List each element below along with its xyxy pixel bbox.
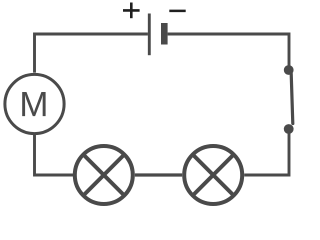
wire left (motor to bottom corner) <box>35 135 74 175</box>
switch contact node (top) <box>284 65 294 75</box>
switch contact node (bottom) <box>284 124 294 134</box>
switch (open) <box>284 65 294 134</box>
label - <box>169 10 185 13</box>
battery positive plate <box>148 14 151 56</box>
wire bottom-right (lamp 2 to switch) <box>244 132 289 175</box>
battery negative plate <box>161 23 168 45</box>
motor M <box>5 74 64 133</box>
switch lever (open) <box>291 74 293 124</box>
lamp 1 <box>75 146 133 204</box>
lamp 2 <box>184 146 242 204</box>
wire top-right (battery - to switch) <box>168 34 289 66</box>
wire between lamps <box>135 173 182 176</box>
label + <box>123 3 140 19</box>
wire top-left (corner to battery +) <box>35 34 148 73</box>
